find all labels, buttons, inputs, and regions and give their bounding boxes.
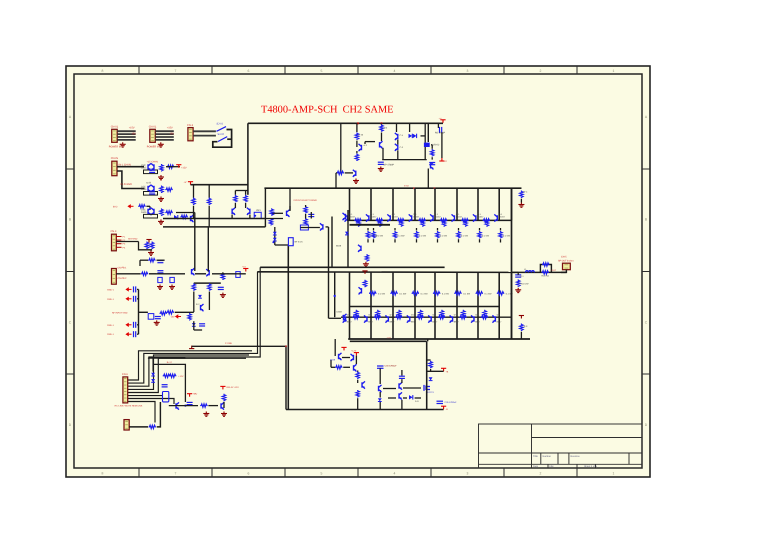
junction	[413, 187, 415, 189]
resistor RE437.5	[436, 231, 439, 239]
resistor hang R2b	[400, 219, 403, 227]
resistor R37	[542, 271, 549, 274]
resistor REL4	[454, 292, 461, 295]
resistor R61	[335, 366, 342, 369]
wire	[431, 144, 432, 146]
wire column lower	[511, 272, 513, 339]
wire base bus lower	[350, 306, 500, 308]
junction	[184, 405, 186, 407]
connector J8	[123, 377, 128, 403]
resistor R17	[234, 195, 237, 203]
svg-text:2: 2	[540, 69, 542, 73]
wire base line upper	[347, 219, 512, 221]
wire	[427, 123, 429, 142]
wire	[245, 191, 247, 195]
power flag +15V	[176, 165, 181, 168]
preamp B R load	[160, 186, 163, 194]
border tick right	[642, 271, 650, 273]
svg-text:VR-02: VR-02	[433, 144, 440, 147]
svg-text:0.1 5W: 0.1 5W	[421, 292, 429, 295]
svg-text:POWER IN: POWER IN	[109, 146, 122, 149]
wire	[416, 228, 418, 231]
svg-text:CN-FB 2: CN-FB 2	[118, 277, 128, 280]
power flag -VR	[519, 316, 524, 319]
svg-text:-15V: -15V	[169, 132, 175, 135]
capacitor C24 electrolytic	[236, 272, 240, 278]
svg-text:0.1 5W: 0.1 5W	[398, 235, 406, 238]
wire bus L1	[127, 351, 252, 380]
wire bus L4	[127, 355, 249, 389]
wire column lower	[498, 272, 500, 339]
power flag V+	[188, 182, 193, 185]
wire mid bus	[260, 266, 444, 268]
resistor R30	[520, 191, 523, 199]
resistor R23	[337, 171, 344, 174]
svg-text:R-E: R-E	[524, 325, 528, 328]
svg-text:GND-1: GND-1	[107, 333, 115, 336]
transistor Q20	[344, 314, 347, 321]
sheet	[66, 66, 650, 477]
wire	[424, 147, 426, 160]
wire	[437, 123, 439, 128]
wire	[175, 311, 194, 313]
wire	[415, 397, 421, 399]
wire	[382, 159, 427, 161]
capacitor C34	[399, 376, 405, 378]
border tick top	[430, 66, 432, 74]
wire	[441, 133, 443, 159]
wire column lower	[414, 272, 416, 339]
power flag -V4	[439, 158, 444, 161]
svg-text:0.1 5W: 0.1 5W	[440, 235, 448, 238]
wire	[213, 130, 232, 148]
wire	[427, 359, 431, 361]
wire output column	[511, 188, 513, 339]
wire	[381, 133, 383, 142]
svg-text:IN-L CH-IN: IN-L CH-IN	[119, 163, 131, 166]
wire output bottom bus	[348, 338, 530, 340]
power port IN D	[126, 333, 131, 336]
transistor Q34	[339, 353, 342, 360]
svg-text:0.1 5W: 0.1 5W	[376, 235, 384, 238]
wire	[169, 405, 198, 407]
svg-text:C35 4700uF: C35 4700uF	[445, 401, 458, 404]
wire	[155, 139, 174, 141]
connector J1	[112, 129, 118, 142]
resistor hang R3b	[421, 219, 424, 227]
svg-text:1: 1	[613, 69, 615, 73]
resistor hang RL3b	[419, 310, 422, 318]
preamp C Q a	[148, 208, 151, 215]
svg-text:P-GND: P-GND	[225, 342, 232, 345]
resistor hang RL0b	[355, 310, 358, 318]
wire	[367, 239, 369, 242]
resistor RE500.5	[499, 231, 502, 239]
svg-text:B817: B817	[432, 321, 438, 324]
connector J2	[150, 129, 156, 142]
transistor Q21 output NPN	[366, 214, 369, 221]
power port IN C	[126, 324, 131, 327]
border tick left	[66, 271, 74, 273]
transistor Q7	[191, 215, 194, 222]
svg-text:1845: 1845	[141, 167, 147, 170]
diode D19	[429, 377, 433, 380]
resistor R62	[356, 372, 359, 380]
svg-text:0.1 5W: 0.1 5W	[419, 235, 427, 238]
resistor base R3	[397, 219, 404, 222]
transistor Q30 output PNP	[343, 315, 346, 322]
wire	[212, 273, 246, 275]
wire	[403, 387, 421, 389]
transistor Q28	[354, 364, 357, 371]
wire	[430, 369, 432, 371]
wire column upper	[456, 188, 458, 220]
capacitor C26	[155, 317, 161, 319]
svg-text:3: 3	[467, 472, 469, 476]
wire	[426, 341, 428, 409]
svg-text:CN-IN: CN-IN	[111, 157, 118, 160]
wire	[329, 317, 342, 319]
wire	[234, 203, 236, 208]
border tick bottom	[357, 468, 359, 477]
resistor REL5	[476, 292, 483, 295]
svg-text:K2221: K2221	[428, 391, 435, 394]
resistor hang R6b	[485, 219, 488, 227]
power flag RELAY	[220, 386, 225, 389]
switch S1A	[217, 127, 227, 132]
wire bus	[207, 227, 209, 272]
power flag MU	[187, 394, 192, 397]
wire	[194, 213, 196, 218]
svg-text:B817: B817	[347, 321, 353, 324]
resistor R35	[520, 324, 523, 332]
wire	[117, 130, 136, 132]
border tick left	[66, 168, 74, 170]
junction	[285, 345, 287, 347]
svg-text:GND-1: GND-1	[107, 324, 115, 327]
resistor R57	[163, 374, 170, 377]
transistor Q27	[221, 402, 224, 409]
transistor Q25	[320, 223, 323, 230]
svg-text:+15V: +15V	[181, 167, 187, 170]
svg-text:Number: Number	[543, 455, 552, 458]
wire	[208, 185, 210, 198]
resistor R53	[300, 225, 308, 230]
svg-text:0.1 5W: 0.1 5W	[399, 292, 407, 295]
svg-text:R10 2W: R10 2W	[521, 282, 530, 285]
wire column lower	[349, 272, 351, 339]
resistor REL1	[390, 292, 397, 295]
resistor R50	[269, 218, 272, 226]
transistor Q26 output NPN	[473, 214, 476, 221]
wire column lower	[456, 272, 458, 339]
resistor R60	[222, 394, 225, 402]
wire	[512, 271, 519, 273]
wire bus center	[287, 246, 289, 410]
svg-text:1845: 1845	[141, 211, 147, 214]
wire	[274, 227, 276, 245]
svg-text:8: 8	[102, 472, 104, 476]
junction	[254, 215, 256, 217]
resistor R52	[304, 218, 307, 226]
power port IN A	[126, 288, 131, 291]
svg-text:B817: B817	[368, 321, 374, 324]
svg-text:0.1 5W: 0.1 5W	[485, 292, 493, 295]
transistor Q32	[399, 392, 402, 399]
transistor Q36 output PNP	[471, 315, 474, 322]
wire	[272, 212, 283, 214]
border tick top	[357, 66, 359, 74]
junction	[272, 241, 274, 243]
wire	[310, 212, 312, 219]
svg-text:B817: B817	[390, 321, 396, 324]
wire	[144, 192, 158, 196]
trimpot RP4	[288, 238, 293, 246]
wire	[129, 426, 148, 428]
transistor Q19 driver	[359, 287, 362, 294]
svg-text:CN-01: CN-01	[111, 126, 119, 129]
resistor R40	[145, 242, 148, 250]
wire	[424, 123, 426, 142]
capacitor C22 electrolytic	[170, 277, 174, 282]
border tick top	[211, 66, 213, 74]
resistor REL2	[412, 292, 419, 295]
transistor Q33 mosfet	[424, 385, 430, 391]
wire	[397, 150, 399, 159]
wire column upper	[414, 188, 416, 220]
wire	[117, 171, 145, 189]
wire column upper	[498, 188, 500, 220]
resistor base R5	[440, 219, 447, 222]
svg-text:D1047: D1047	[392, 215, 399, 218]
capacitor C31	[187, 402, 193, 404]
svg-text:B649: B649	[336, 245, 342, 248]
wire top V+ rail	[248, 122, 443, 124]
ground	[169, 285, 175, 290]
resistor R21	[380, 124, 383, 132]
wire	[193, 135, 216, 137]
svg-text:SP OUT 8 ohm: SP OUT 8 ohm	[558, 259, 574, 262]
diode D13	[273, 238, 277, 241]
transistor Q11	[380, 141, 383, 148]
resistor REL3	[433, 292, 440, 295]
wire	[192, 345, 286, 347]
wire	[300, 227, 320, 229]
transistor Q31	[399, 382, 402, 389]
ground	[203, 412, 209, 417]
relay K1	[163, 392, 169, 402]
resistor R20	[355, 132, 358, 140]
resistor base RL3	[395, 316, 402, 319]
wire	[356, 123, 358, 132]
svg-text:7: 7	[175, 472, 177, 476]
svg-text:0.1 5W: 0.1 5W	[442, 292, 450, 295]
resistor hang RL2b	[397, 310, 400, 318]
wire	[139, 260, 141, 266]
wire	[367, 228, 369, 231]
resistor base RL4	[417, 316, 424, 319]
svg-text:R5 4700P: R5 4700P	[435, 131, 446, 134]
wire pin stub	[116, 239, 121, 241]
wire	[193, 130, 216, 132]
ground	[363, 262, 369, 267]
junction	[434, 187, 436, 189]
junction	[334, 295, 336, 297]
transistor Q37 output PNP	[492, 315, 495, 322]
border tick top	[503, 66, 505, 74]
wire column upper	[392, 188, 394, 220]
svg-text:IN-R GND: IN-R GND	[121, 183, 133, 186]
wire	[193, 292, 195, 313]
resistor hang R1b	[378, 219, 381, 227]
svg-text:CN-01: CN-01	[149, 126, 157, 129]
resistor R8	[165, 188, 172, 191]
wire	[289, 210, 291, 211]
svg-text:8: 8	[102, 69, 104, 73]
svg-text:-15V: -15V	[170, 316, 175, 319]
resistor base R6	[461, 219, 468, 222]
svg-text:Title: Title	[533, 455, 538, 458]
border tick bottom	[430, 468, 432, 477]
wire column upper	[511, 188, 513, 220]
transistor Q14	[353, 170, 356, 177]
capacitor C20	[157, 271, 163, 273]
resistor R59	[200, 404, 207, 407]
preamp A R load	[160, 164, 163, 172]
svg-text:GND-1: GND-1	[107, 288, 115, 291]
power flag PGND	[189, 346, 194, 349]
resistor R18	[244, 195, 247, 203]
svg-text:D1047: D1047	[413, 215, 420, 218]
wire	[127, 399, 174, 405]
power flag D-	[341, 347, 346, 350]
power flag GNDR	[146, 240, 151, 243]
wire	[379, 402, 381, 410]
svg-text:+12V: +12V	[351, 350, 357, 353]
svg-text:2: 2	[540, 472, 542, 476]
wire	[234, 191, 236, 195]
svg-text:3: 3	[467, 69, 469, 73]
wire	[437, 239, 439, 242]
resistor R5	[167, 165, 174, 168]
ground	[154, 320, 160, 325]
resistor hang RL1b	[376, 310, 379, 318]
connector J3	[188, 128, 193, 141]
wire	[356, 151, 358, 153]
wire	[275, 244, 289, 246]
capacitor C35 electrolytic	[437, 401, 444, 403]
wire	[397, 140, 399, 145]
svg-text:OPEN? BASS?? REMO: OPEN? BASS?? REMO	[294, 199, 318, 202]
border tick left	[66, 373, 74, 375]
resistor base RL7	[481, 316, 488, 319]
transistor Q16	[431, 162, 434, 169]
preamp B ground	[158, 197, 164, 202]
capacitor	[134, 331, 136, 337]
svg-text:+15V: +15V	[129, 127, 135, 130]
wire rail A	[163, 218, 265, 220]
wire	[437, 228, 439, 231]
resistor hang R4b	[442, 219, 445, 227]
svg-text:CN-5: CN-5	[561, 256, 567, 259]
wire	[137, 333, 139, 335]
resistor hang RL5b	[462, 310, 465, 318]
wire pin stub	[116, 236, 121, 238]
ground	[518, 203, 524, 208]
wire	[144, 214, 158, 218]
transistor Q33 output PNP	[407, 315, 410, 322]
wire	[421, 135, 426, 137]
svg-text:SJ-01: SJ-01	[217, 123, 224, 126]
wire	[222, 272, 224, 274]
wire	[416, 239, 418, 242]
svg-text:CN-6: CN-6	[122, 373, 128, 376]
wire	[127, 395, 163, 397]
svg-text:D1047: D1047	[435, 215, 442, 218]
wire	[264, 188, 266, 227]
inner border	[74, 74, 642, 468]
wire	[396, 123, 398, 132]
wire	[127, 402, 155, 423]
diode D10 zener	[198, 295, 202, 298]
wire bus L2	[127, 272, 257, 383]
wire	[403, 397, 407, 399]
wire	[116, 241, 138, 243]
resistor R22	[431, 149, 434, 157]
preamp C Q b	[151, 208, 154, 215]
wire	[401, 400, 403, 410]
transistor Q9	[247, 208, 250, 215]
preamp A Q a	[148, 163, 151, 170]
wire	[155, 130, 174, 132]
svg-text:4: 4	[394, 69, 396, 73]
wire	[334, 339, 336, 356]
svg-text:+V: +V	[184, 181, 187, 184]
wire column lower	[392, 272, 394, 339]
wire	[540, 265, 551, 273]
wire	[137, 324, 139, 326]
svg-text:0.1 5W: 0.1 5W	[463, 292, 471, 295]
wire	[373, 239, 375, 242]
wire column lower	[477, 272, 479, 339]
wire	[227, 138, 231, 140]
svg-text:POWER IN: POWER IN	[147, 146, 160, 149]
resistor R56	[149, 425, 156, 428]
capacitor C4	[149, 192, 155, 194]
resistor R34	[517, 279, 520, 287]
resistor hang RL4b	[440, 310, 443, 318]
wire	[331, 366, 335, 368]
wire	[152, 358, 154, 371]
wire	[409, 123, 411, 132]
diode D16	[151, 379, 155, 382]
svg-text:RC-LINK? MUTE REM LINK: RC-LINK? MUTE REM LINK	[115, 405, 143, 408]
svg-text:OUT: OUT	[552, 269, 557, 272]
wire	[330, 360, 332, 367]
wire	[388, 397, 396, 399]
svg-text:+12V: +12V	[178, 375, 184, 378]
wire rail B	[163, 226, 265, 228]
wire	[500, 239, 502, 242]
wire emitter bus	[350, 224, 391, 226]
svg-text:4: 4	[394, 472, 396, 476]
wire	[157, 402, 161, 427]
svg-text:Date: Date	[533, 465, 539, 468]
wire	[156, 273, 185, 275]
wire	[458, 239, 460, 242]
resistor R49	[188, 313, 191, 321]
svg-text:0.1 5W: 0.1 5W	[482, 235, 490, 238]
